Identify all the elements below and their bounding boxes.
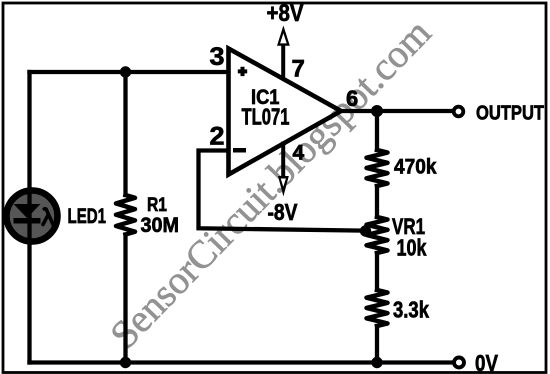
op-amp minus input symbol	[233, 148, 246, 153]
terminal 0V	[454, 358, 464, 368]
svg-text:3.3k: 3.3k	[393, 297, 429, 323]
wire left vertical through LED	[27, 72, 31, 363]
wire bottom 0V rail	[30, 360, 453, 364]
wire pin4 to -8V arrow	[281, 144, 285, 178]
svg-text:6: 6	[346, 86, 358, 111]
wire R1 top lead	[123, 72, 127, 195]
arrow -8V	[278, 176, 289, 197]
LED1 cathode bar	[14, 218, 41, 224]
svg-text:2: 2	[210, 123, 225, 151]
resistor R1 zigzag	[116, 195, 135, 234]
wire 3.3k bottom lead	[375, 326, 379, 363]
op-amp plus input symbol	[238, 67, 247, 76]
svg-text:TL071: TL071	[242, 104, 290, 130]
junction R1 bottom	[120, 357, 131, 368]
resistor 470k zigzag	[367, 150, 388, 186]
junction output node	[371, 105, 383, 117]
svg-text:LED1: LED1	[68, 205, 107, 228]
wire 470k to VR1	[375, 186, 379, 217]
wire R1 bottom lead	[123, 235, 127, 363]
potentiometer VR1 zigzag	[367, 217, 388, 253]
junction R1 top	[120, 66, 131, 77]
svg-text:-8V: -8V	[268, 199, 299, 225]
svg-text:0V: 0V	[475, 350, 499, 374]
LED1 diode triangle	[14, 204, 41, 218]
svg-text:7: 7	[292, 56, 305, 83]
LED1 body	[7, 191, 58, 242]
junction VR1 wiper	[360, 225, 371, 236]
svg-text:OUTPUT: OUTPUT	[476, 103, 544, 125]
arrow +8V	[277, 26, 290, 46]
svg-text:470k: 470k	[394, 156, 437, 179]
LED1 lambda	[43, 209, 53, 225]
junction divider bottom	[371, 357, 382, 368]
wire VR1 to 3.3k	[375, 253, 379, 290]
resistor 3.3k zigzag	[367, 290, 388, 326]
wire pin7 to +8V arrow	[281, 45, 285, 79]
wire feedback pin2 to VR1 wiper	[199, 151, 363, 231]
wire divider top lead	[375, 111, 379, 150]
svg-text:30M: 30M	[141, 214, 180, 237]
wire top rail to pin 3	[30, 70, 229, 74]
svg-text:R1: R1	[147, 195, 167, 216]
svg-text:10k: 10k	[397, 235, 427, 261]
op-amp IC1 triangle	[229, 49, 342, 175]
svg-text:+8V: +8V	[267, 0, 304, 27]
svg-text:4: 4	[293, 142, 305, 165]
terminal OUTPUT	[454, 107, 464, 117]
svg-text:3: 3	[210, 43, 225, 71]
wire output node	[341, 109, 452, 113]
